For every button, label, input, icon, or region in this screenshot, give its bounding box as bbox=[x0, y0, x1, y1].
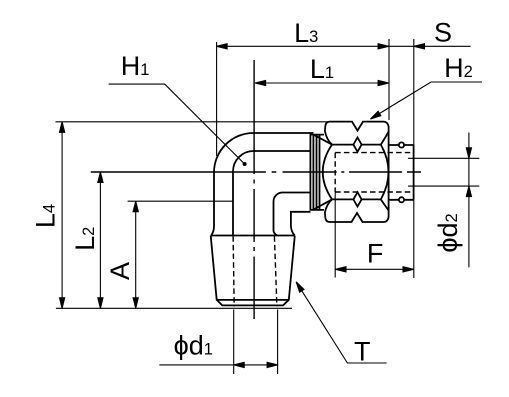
male taper thread outline bbox=[211, 236, 295, 306]
nut silhouette bbox=[323, 122, 389, 222]
dimension line S bbox=[389, 45, 471, 47]
svg-text:L3: L3 bbox=[294, 18, 318, 48]
extension line phi-d1 left bbox=[233, 310, 235, 375]
extension line L3 left bbox=[216, 42, 218, 156]
hidden bore back face bbox=[334, 153, 336, 192]
svg-text:L2: L2 bbox=[70, 227, 100, 251]
extension line phi-d2 bottom bbox=[408, 185, 479, 187]
svg-text:F: F bbox=[367, 239, 384, 269]
svg-text:T: T bbox=[354, 337, 371, 367]
dimension line L4 bbox=[61, 122, 63, 308]
elbow body outer profile bbox=[211, 133, 313, 235]
svg-text:A: A bbox=[105, 262, 135, 280]
extension line L4 top bbox=[56, 121, 330, 123]
flange chamfer top bbox=[314, 135, 332, 145]
extension line A top bbox=[128, 200, 233, 202]
nut corner diamond lower bbox=[353, 192, 361, 206]
vertical centerline bbox=[253, 60, 255, 319]
dimension line F bbox=[336, 268, 414, 270]
body step under arm bbox=[291, 212, 311, 236]
svg-text:H2: H2 bbox=[444, 53, 473, 83]
svg-text:ϕd2: ϕd2 bbox=[433, 213, 463, 252]
leader H2 bbox=[371, 82, 483, 119]
nut facet line lower bbox=[332, 198, 381, 200]
stub hole circle bottom bbox=[399, 197, 404, 202]
svg-text:ϕd1: ϕd1 bbox=[174, 331, 213, 361]
dimension line L1 bbox=[255, 82, 389, 84]
nut facet line upper bbox=[332, 144, 381, 146]
leader H1 bbox=[109, 84, 245, 164]
svg-text:L4: L4 bbox=[31, 204, 61, 228]
extension line phi-d2 top bbox=[408, 157, 479, 159]
dimension line phi-d1 bbox=[159, 364, 277, 366]
extension line F left bbox=[334, 192, 336, 278]
extension line bottom (thread end) bbox=[56, 307, 292, 309]
dimension line L3 bbox=[217, 45, 389, 47]
svg-text:S: S bbox=[434, 18, 452, 48]
tube stub outline bbox=[389, 145, 414, 200]
extension line nut face right bbox=[388, 39, 390, 120]
flange chamfer bottom bbox=[314, 199, 332, 209]
extension line stub end bbox=[413, 39, 415, 278]
collar flange before nut bbox=[310, 133, 324, 211]
elbow body inner arc line bbox=[233, 151, 311, 235]
svg-text:L1: L1 bbox=[310, 54, 334, 84]
thread minor diameter hidden line left bbox=[233, 236, 234, 306]
hidden bore line upper bbox=[335, 152, 411, 154]
thread minor diameter hidden line right bbox=[274, 236, 277, 306]
nut corner diamond upper bbox=[353, 137, 361, 151]
stub hole circle top bbox=[399, 142, 404, 147]
nut right chamfer arcs bbox=[381, 132, 389, 211]
leader T bbox=[296, 282, 386, 363]
horizontal centerline bbox=[91, 171, 421, 173]
svg-text:H1: H1 bbox=[121, 51, 150, 81]
dimension line L2 bbox=[99, 172, 101, 308]
hidden bore line lower bbox=[335, 191, 411, 193]
dimension line A bbox=[135, 201, 137, 308]
elbow inside corner bbox=[273, 193, 310, 236]
extension line phi-d1 right bbox=[277, 310, 279, 375]
dimension line phi-d2 bbox=[468, 133, 470, 268]
